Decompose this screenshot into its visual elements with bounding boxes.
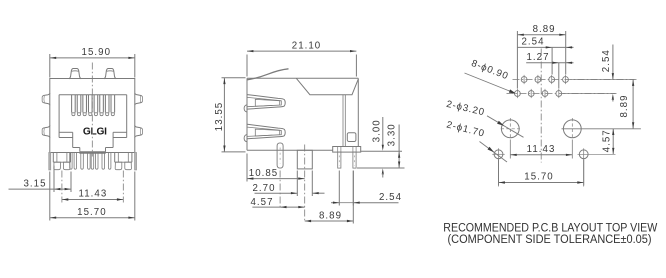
side bottom reference line [361, 150, 403, 152]
svg-text:2.54: 2.54 [521, 37, 544, 48]
front latch tab bottom edge [79, 152, 105, 154]
pcb row center line bottom [507, 93, 616, 95]
side pin flange [333, 147, 361, 153]
dim 8.89 side line [305, 220, 354, 222]
dim 15.70 extension lines [49, 172, 51, 221]
dim 4.57 line [252, 206, 304, 208]
dim pcb 8.89 line [517, 34, 565, 36]
side pcb pin left [338, 152, 341, 168]
side emi finger lower [247, 124, 285, 139]
dim 11.43 extension lines [61, 171, 63, 203]
side post center line [304, 145, 306, 223]
dim 11.43 line [62, 199, 123, 201]
svg-text:15.90: 15.90 [82, 47, 112, 58]
dim pcb 15.70 extension lines [498, 160, 500, 186]
front contact legs x8 [70, 153, 72, 170]
pcb corner hole left phi1.70 [494, 150, 503, 159]
dim 4.57 extension line [279, 171, 281, 210]
front top mounting bump left [69, 69, 81, 79]
front center line [91, 63, 93, 157]
dim pcb 2.54 extension line [551, 47, 553, 74]
dim 21.10 extension lines [246, 55, 248, 77]
dim pcb 1.27 extension line [558, 63, 560, 89]
side board lock window [347, 133, 356, 142]
svg-text:11.43: 11.43 [79, 189, 108, 200]
svg-text:21.10: 21.10 [292, 40, 322, 51]
dim 15.90 line [50, 57, 135, 59]
dim pcb 15.70 line [499, 182, 584, 184]
pcb top row right ref line [571, 79, 637, 81]
callout 8-phi0.90 leader [465, 73, 515, 93]
dim pcb 2.54 line [517, 46, 573, 48]
dim pcb 11.43 line [510, 154, 572, 156]
svg-text:8-ϕ0.90: 8-ϕ0.90 [470, 58, 511, 82]
dim 15.70 line [50, 217, 135, 219]
side latch tab upper-left edge [244, 105, 247, 112]
front left shield wall [49, 153, 51, 170]
svg-text:4.57: 4.57 [601, 129, 612, 152]
dim pcb 8.89 extension lines [516, 31, 518, 89]
side shield leg capsule [277, 143, 283, 168]
side latch tab lower-left edge [244, 135, 247, 142]
side body outline [247, 77, 358, 79]
pcb pin holes 8x phi0.90 [521, 77, 527, 83]
pcb bottom row right ref line [563, 93, 617, 95]
dim 10.85 extension line [246, 154, 248, 182]
dim pcb 2.54v line [612, 45, 614, 80]
front side latch upper-left [42, 93, 50, 105]
svg-text:15.70: 15.70 [77, 207, 107, 218]
front top mounting bump right [104, 69, 116, 79]
svg-text:10.85: 10.85 [249, 168, 279, 179]
dim 10.85 line [247, 178, 305, 180]
dim pcb 1.27 line [526, 62, 573, 64]
front right shield wall [135, 153, 137, 170]
dim 13.55 extension lines [222, 77, 246, 79]
front contacts x8 [71, 95, 73, 113]
callout 2-phi1.70 leader [480, 142, 508, 163]
side plastic post [297, 150, 312, 169]
dim 2.54 side line [331, 202, 339, 204]
dim 3.00 line [382, 117, 384, 146]
pcb post hole left phi3.20 [501, 120, 519, 138]
dim 13.55 line [223, 78, 225, 152]
side emi finger upper [247, 95, 285, 110]
dim 3.30 line [398, 125, 400, 168]
svg-text:2.54: 2.54 [379, 192, 402, 203]
dim pcb 4.57v line [612, 129, 614, 155]
svg-text:11.43: 11.43 [527, 144, 556, 155]
side pin bottom reference line [357, 167, 405, 169]
dim pcb 8.89v line [632, 80, 634, 129]
dim 3.15 line [9, 188, 72, 190]
svg-text:15.70: 15.70 [524, 171, 554, 182]
dim 2.70 extension lines [296, 171, 298, 197]
side top recess [296, 78, 358, 94]
pcb corner hole right phi1.70 [579, 150, 588, 159]
svg-text:3.30: 3.30 [386, 123, 397, 146]
dim 2.70 line [255, 192, 298, 194]
side pcb pin right [353, 152, 356, 168]
svg-text:2-ϕ3.20: 2-ϕ3.20 [445, 99, 486, 119]
svg-text:2.54: 2.54 [601, 49, 612, 72]
front socket opening [59, 94, 127, 96]
front side latch lower-right [135, 125, 143, 137]
front side latch lower-left [42, 125, 50, 137]
dim 21.10 line [247, 50, 356, 52]
dim 2.54 side extension lines [338, 171, 340, 206]
svg-text:GLGI: GLGI [83, 126, 107, 137]
side latch wire curl [247, 69, 289, 80]
svg-text:13.55: 13.55 [214, 102, 225, 132]
svg-text:3.00: 3.00 [371, 119, 382, 142]
svg-text:2.70: 2.70 [252, 183, 275, 194]
side back wall lines [342, 95, 344, 147]
svg-text:(COMPONENT SIDE TOLERANCE±0.05: (COMPONENT SIDE TOLERANCE±0.05) [448, 234, 652, 246]
svg-text:8.89: 8.89 [619, 94, 630, 117]
dim 8.89 side extension line [352, 171, 354, 224]
svg-text:RECOMMENDED P.C.B LAYOUT TOP V: RECOMMENDED P.C.B LAYOUT TOP VIEW [443, 222, 657, 234]
pcb center line vertical [540, 49, 542, 163]
svg-text:1.27: 1.27 [526, 52, 549, 63]
front shield foot right [114, 153, 116, 163]
pcb post hole right phi3.20 [563, 120, 581, 138]
svg-text:3.15: 3.15 [23, 179, 46, 190]
svg-text:4.57: 4.57 [250, 197, 273, 208]
front view body outline [50, 79, 135, 153]
svg-text:8.89: 8.89 [533, 24, 556, 35]
svg-text:2-ϕ1.70: 2-ϕ1.70 [445, 119, 486, 139]
dim 3.15 extension lines [53, 166, 55, 193]
pcb row center line top [513, 79, 635, 81]
svg-text:8.89: 8.89 [319, 210, 342, 221]
dim 15.90 extension lines [49, 54, 51, 78]
front shield foot left [52, 153, 54, 163]
front side latch upper-right [135, 93, 143, 105]
pcb hole row center line [562, 128, 641, 130]
callout 2-phi3.20 leader [487, 116, 524, 138]
